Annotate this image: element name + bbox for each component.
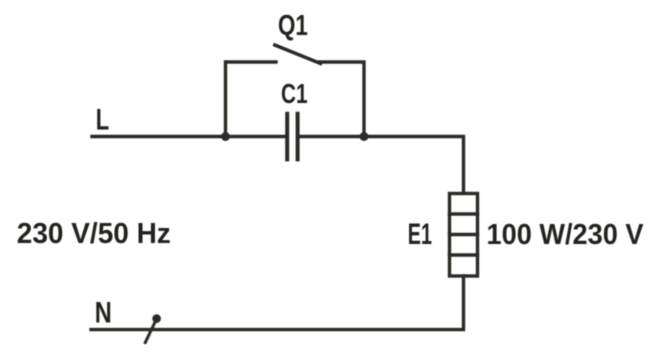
node N tap dot [152,314,161,323]
svg-text:100 W/230 V: 100 W/230 V [487,219,645,251]
lamp E1 body [450,194,478,277]
wire L line left segment [92,135,285,138]
svg-text:Q1: Q1 [278,10,308,42]
switch Q1 blade [275,45,321,64]
node junction right [360,132,369,141]
svg-text:230 V/50 Hz: 230 V/50 Hz [17,218,171,250]
wire L line right segment to E1 drop [300,137,464,194]
svg-text:E1: E1 [408,218,432,251]
N line tap slash [145,319,156,343]
lamp E1 inner line 2 [450,233,478,236]
svg-text:L: L [96,103,109,136]
node junction left [221,132,230,141]
wire switch branch right lead and riser [320,62,365,137]
capacitor C1 left plate [285,114,289,160]
svg-text:C1: C1 [281,78,308,109]
lamp E1 inner line 1 [450,212,478,215]
wire switch branch left riser and lead [226,62,277,137]
svg-text:N: N [95,297,112,330]
wire from E1 to N line [91,276,464,330]
capacitor C1 right plate [296,114,300,160]
lamp E1 inner line 3 [450,253,478,256]
